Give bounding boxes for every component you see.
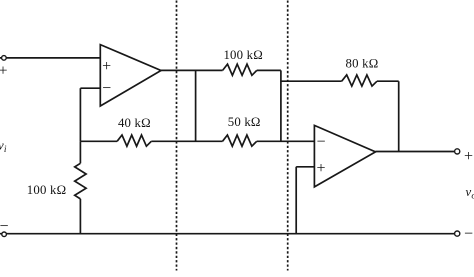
dotted divider line 1: [176, 1, 178, 271]
bottom right terminal: [455, 231, 460, 236]
wire: node B to resistor 80k (feedback): [281, 80, 342, 82]
svg-text:vo: vo: [466, 185, 474, 202]
U2 minus input label: [316, 133, 325, 150]
wire: node A down to vertical resistor: [79, 141, 81, 163]
wire: 80k to feedback corner: [377, 80, 399, 82]
wire: U1 inverting input stub: [80, 87, 100, 89]
U1 minus input label: [102, 80, 111, 97]
svg-text:80 kΩ: 80 kΩ: [346, 57, 379, 71]
wire: U2 output to output terminal: [376, 151, 456, 153]
svg-text:−: −: [0, 218, 9, 235]
wire: vertical resistor to bottom rail: [79, 199, 81, 234]
resistor 80 kOhm: [342, 75, 377, 86]
wire: 100k to node B: [257, 69, 281, 71]
svg-text:vi: vi: [0, 139, 7, 156]
wire: U2 noninverting input stub: [296, 166, 314, 168]
label 100 kOhm (top resistor): [223, 48, 263, 62]
svg-text:50 kΩ: 50 kΩ: [228, 115, 261, 129]
wire: U2 noninverting input down to bottom rail: [295, 167, 297, 234]
svg-text:−: −: [102, 80, 111, 97]
svg-text:+: +: [464, 148, 473, 165]
plus sign at input terminal: [0, 62, 8, 79]
wire: 40k to 50k through junction under U1 output: [151, 140, 222, 142]
minus sign at bottom right terminal: [464, 226, 473, 243]
op-amp U1: [100, 45, 161, 106]
label 40 kOhm: [118, 116, 151, 130]
wire: feedback vertical down to U2 output: [398, 81, 400, 151]
svg-text:100 kΩ: 100 kΩ: [223, 48, 263, 62]
label 50 kOhm: [228, 115, 261, 129]
input terminal (top left): [2, 56, 7, 61]
wire: node A to resistor 40k (middle rail left): [80, 140, 117, 142]
minus sign at bottom left terminal: [0, 218, 9, 235]
output terminal (top right): [455, 149, 460, 154]
resistor 100 kOhm (vertical): [75, 163, 86, 199]
label v_o: [466, 185, 474, 202]
label 100 kOhm (vertical resistor): [27, 183, 67, 197]
wire: vertical from U1 inverting input down to node A: [79, 88, 81, 141]
svg-text:40 kΩ: 40 kΩ: [118, 116, 151, 130]
wire: vertical junction U1 output to middle rail: [195, 70, 197, 141]
resistor 50 kOhm: [223, 135, 257, 146]
plus sign at output terminal: [464, 148, 473, 165]
label 80 kOhm: [346, 57, 379, 71]
svg-text:−: −: [464, 226, 473, 243]
resistor 100 kOhm (top): [223, 64, 257, 75]
U2 plus input label: [316, 160, 325, 177]
op-amp U2: [314, 125, 375, 186]
svg-text:100 kΩ: 100 kΩ: [27, 183, 67, 197]
label v_i: [0, 139, 7, 156]
svg-text:+: +: [316, 160, 325, 177]
svg-text:+: +: [0, 62, 8, 79]
bottom left terminal: [2, 232, 7, 237]
dotted divider line 2: [287, 1, 289, 271]
wire: node B vertical down to middle rail: [280, 70, 282, 141]
U1 plus input label: [102, 58, 111, 75]
svg-text:−: −: [316, 133, 325, 150]
wire: input terminal to U1 noninverting input: [0, 57, 100, 59]
wire: bottom rail: [0, 233, 455, 235]
svg-text:+: +: [102, 58, 111, 75]
wire: 50k to U2 inverting input: [257, 140, 315, 142]
resistor 40 kOhm: [117, 135, 151, 146]
wire: U1 output to resistor 100k: [161, 69, 223, 71]
